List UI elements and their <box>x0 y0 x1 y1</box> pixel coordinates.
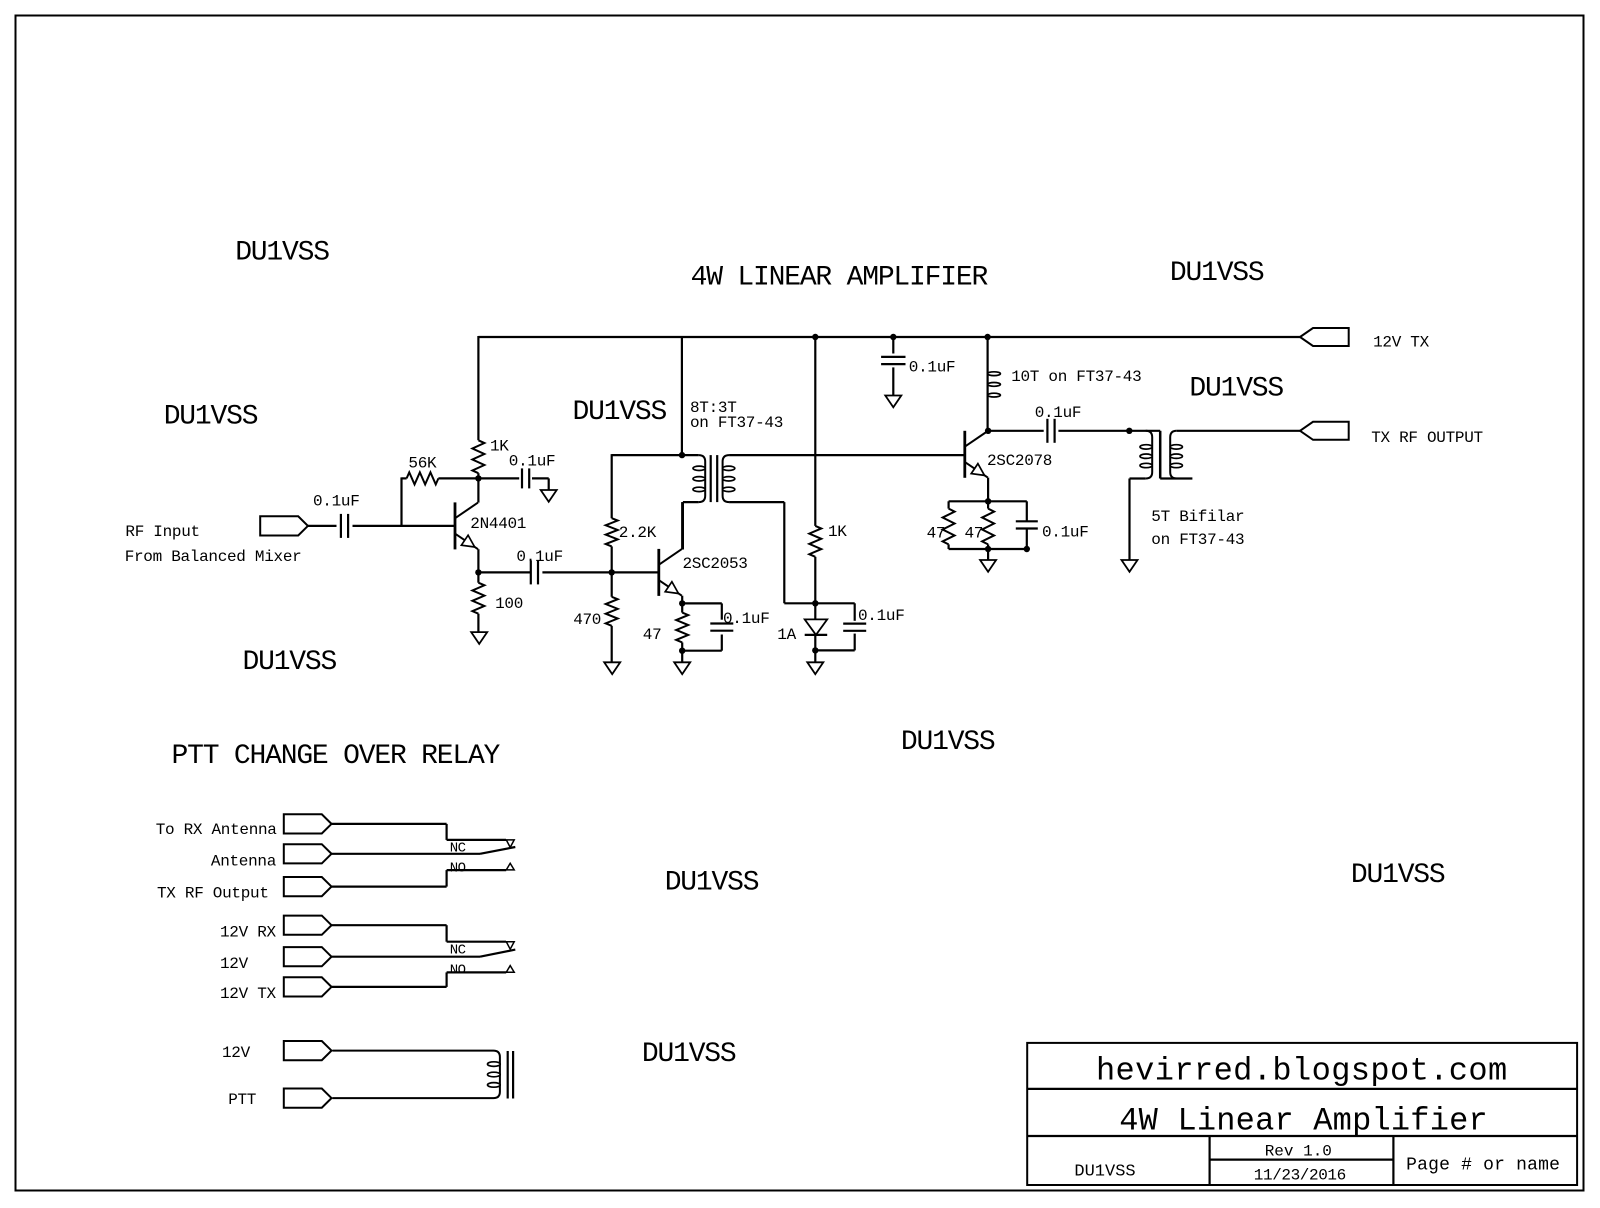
svg-text:Rev 1.0: Rev 1.0 <box>1265 1143 1332 1161</box>
wire node to Q2 base <box>612 571 659 573</box>
transformer T2 winding B 5T <box>1170 431 1182 479</box>
connector 12V TX <box>1300 328 1349 346</box>
watermark text DU1VSS #8 <box>665 868 759 899</box>
svg-text:10T on FT37-43: 10T on FT37-43 <box>1011 368 1141 386</box>
title block frame <box>1027 1043 1577 1185</box>
wire Q2 emitter down <box>681 596 683 604</box>
inductor L1 10T on FT37-43 <box>988 337 1001 431</box>
svg-text:4W LINEAR AMPLIFIER: 4W LINEAR AMPLIFIER <box>691 263 989 294</box>
wire C1 to Q1 base <box>353 525 456 527</box>
capacitor C6 0.1uF bias bypass <box>843 624 866 631</box>
relay contact NO1 <box>506 863 514 870</box>
svg-text:56K: 56K <box>408 455 437 473</box>
node C8 bottom junction <box>1024 546 1030 552</box>
label NC contact 1 <box>450 841 466 857</box>
connector RF Input <box>260 516 308 535</box>
label R6 47 <box>643 626 662 644</box>
wire rail drop to R2 1K <box>477 336 479 440</box>
capacitor C2 0.1uF collector bypass <box>522 468 529 488</box>
wire R1 left leg down to base <box>400 477 402 526</box>
svg-text:RF Input: RF Input <box>125 523 199 541</box>
watermark text DU1VSS #9 <box>1351 860 1445 891</box>
relay contact NC1 <box>506 840 514 848</box>
wire T1 secondary bottom to bias node <box>729 502 815 603</box>
label R9 47 <box>965 525 984 543</box>
connector 12V coil <box>284 1041 332 1060</box>
wire emitter to C3 <box>478 571 531 573</box>
resistor R7 1K bias <box>809 526 821 603</box>
wire NO2 line <box>447 971 507 973</box>
svg-text:2N4401: 2N4401 <box>470 515 526 533</box>
capacitor C8 0.1uF emitter bypass <box>1016 501 1038 549</box>
label RF Input <box>125 523 199 541</box>
svg-text:DU1VSS: DU1VSS <box>164 402 258 433</box>
wire junction to D1 <box>814 603 816 619</box>
node Q2 emitter junction <box>679 600 685 606</box>
transformer T1 primary winding 8T <box>683 455 705 549</box>
resistor R4 2.2K bias <box>606 454 618 572</box>
svg-text:47: 47 <box>643 626 662 644</box>
capacitor C1 0.1uF input coupling <box>341 514 348 538</box>
label PTT <box>228 1091 256 1109</box>
wire C5 bottom to junction <box>682 635 722 651</box>
label L1 10T on FT37-43 <box>1011 368 1141 386</box>
ground below C2 <box>541 490 557 502</box>
label Q3 2SC2078 <box>987 452 1052 470</box>
relay coil K1 <box>332 1051 500 1099</box>
svg-text:0.1uF: 0.1uF <box>1042 523 1089 541</box>
svg-text:TX RF OUTPUT: TX RF OUTPUT <box>1371 429 1483 447</box>
capacitor C3 0.1uF interstage coupling <box>531 560 538 584</box>
wire T1 secondary top to Q3 base <box>729 454 965 456</box>
label 12V RX <box>220 924 277 942</box>
wire network to ground <box>987 549 989 560</box>
title block Rev 1.0 <box>1265 1143 1332 1161</box>
wire emitter network bottom <box>949 548 1027 550</box>
label TX RF Output <box>157 885 269 903</box>
resistor R6 47 emitter <box>676 603 688 650</box>
wire To RX Antenna to NC1 <box>332 824 507 840</box>
wire C3 to node A <box>542 571 611 573</box>
resistor R3 100 emitter <box>472 572 484 632</box>
label R3 100 <box>495 595 523 613</box>
label 12V TX <box>1373 334 1430 352</box>
relay contact NC2 <box>506 942 514 950</box>
connector 12V RX <box>284 916 332 935</box>
label C2 0.1uF <box>509 453 556 471</box>
svg-text:2SC2053: 2SC2053 <box>683 555 748 573</box>
node Q2 base junction <box>609 569 615 575</box>
svg-text:1A: 1A <box>777 626 796 644</box>
label NO contact 2 <box>450 963 466 979</box>
svg-text:DU1VSS: DU1VSS <box>1189 374 1283 405</box>
watermark text DU1VSS #7 <box>901 727 995 758</box>
wire 12V common 2 <box>332 956 481 958</box>
label C8 0.1uF <box>1042 523 1089 541</box>
svg-text:NO: NO <box>450 861 466 877</box>
wire T2 to TX RF OUTPUT <box>1177 430 1300 432</box>
wire RF input to C1 <box>308 525 337 527</box>
label R5 470 <box>573 611 601 629</box>
svg-text:DU1VSS: DU1VSS <box>642 1039 736 1070</box>
svg-text:Page # or name: Page # or name <box>1406 1156 1560 1176</box>
ground below T2 <box>1122 560 1138 572</box>
svg-text:12V: 12V <box>222 1044 251 1062</box>
label TX RF OUTPUT <box>1371 429 1483 447</box>
svg-text:DU1VSS: DU1VSS <box>235 238 329 269</box>
relay arm pole 2 <box>480 950 515 957</box>
wire emitter network top <box>949 500 1027 502</box>
connector 12V common <box>284 947 332 966</box>
title block date 11/23/2016 <box>1254 1166 1346 1184</box>
wire Antenna common 1 <box>332 853 481 855</box>
svg-text:PTT: PTT <box>228 1091 256 1109</box>
wire C2 to ground stub <box>532 478 549 490</box>
title block page <box>1406 1156 1560 1176</box>
svg-text:DU1VSS: DU1VSS <box>1074 1163 1135 1182</box>
wire Q2 collector to T1 <box>681 502 683 549</box>
node emitter network bottom junction <box>985 546 991 552</box>
label T1 8T:3T <box>690 399 737 417</box>
node Q3 emitter junction <box>985 498 991 504</box>
label 12V common <box>220 955 249 973</box>
wire R6 to ground <box>681 651 683 663</box>
svg-text:DU1VSS: DU1VSS <box>665 868 759 899</box>
relay coil core <box>508 1051 513 1099</box>
watermark text DU1VSS #2 <box>164 402 258 433</box>
diode D1 1A <box>805 619 828 650</box>
resistor R5 470 bias <box>606 572 618 662</box>
svg-text:on FT37-43: on FT37-43 <box>690 414 783 432</box>
wire Q3 collector to C9 <box>988 430 1044 432</box>
ground below R5 <box>604 662 620 674</box>
connector TX RF Output <box>284 877 332 896</box>
wire TX RF Output to NO1 <box>332 870 447 887</box>
label T2 5T Bifilar <box>1151 508 1244 526</box>
ground below emitter network <box>980 560 996 572</box>
svg-text:2SC2078: 2SC2078 <box>987 452 1052 470</box>
label Antenna <box>211 853 277 871</box>
wire rail drop to R7 <box>814 337 816 526</box>
node rail junction L1 <box>984 334 990 340</box>
label C6 0.1uF <box>858 607 905 625</box>
wire emitter to C5 top <box>682 603 722 619</box>
svg-text:0.1uF: 0.1uF <box>1035 404 1082 422</box>
node D1 anode junction <box>812 600 818 606</box>
svg-text:DU1VSS: DU1VSS <box>243 647 337 678</box>
ground below C7 <box>885 396 901 408</box>
section title PTT CHANGE OVER RELAY <box>172 741 501 772</box>
label NC contact 2 <box>450 943 466 959</box>
label T1 on FT37-43 <box>690 414 783 432</box>
ground below D1 <box>807 662 823 674</box>
transformer T2 winding A 5T <box>1130 431 1153 560</box>
wire Q1 emitter down <box>477 549 479 572</box>
label D1 1A <box>777 626 796 644</box>
label C5 0.1uF <box>723 610 770 628</box>
watermark text DU1VSS #3 <box>573 397 667 428</box>
svg-text:0.1uF: 0.1uF <box>858 607 905 625</box>
svg-text:1K: 1K <box>828 523 847 541</box>
svg-text:47: 47 <box>927 525 946 543</box>
wire C7 to ground <box>892 367 894 395</box>
node Q3 collector junction <box>985 428 991 434</box>
svg-text:Antenna: Antenna <box>211 853 277 871</box>
svg-text:NO: NO <box>450 963 466 979</box>
wire C9 to T2 <box>1058 430 1160 432</box>
wire NO1 line <box>447 869 507 871</box>
label C3 0.1uF <box>516 548 563 566</box>
svg-text:12V TX: 12V TX <box>220 985 277 1003</box>
label From Balanced Mixer <box>125 548 302 566</box>
label R2 1K <box>490 438 509 456</box>
svg-text:1K: 1K <box>490 438 509 456</box>
resistor R1 56K feedback <box>402 472 479 484</box>
node rail junction C7 <box>890 334 896 340</box>
wire C6 bottom to cathode <box>815 634 854 651</box>
label NO contact 1 <box>450 861 466 877</box>
wire Q3 emitter down <box>987 478 989 502</box>
wire rail drop to T1 <box>681 336 683 455</box>
svg-text:DU1VSS: DU1VSS <box>1351 860 1445 891</box>
transformer T1 secondary winding 3T <box>723 455 735 502</box>
transistor Q3 2SC2078 <box>965 431 988 478</box>
watermark text DU1VSS #1 <box>235 238 329 269</box>
node D1 cathode junction <box>812 647 818 653</box>
svg-text:12V RX: 12V RX <box>220 924 277 942</box>
capacitor C9 0.1uF output coupling <box>1047 419 1054 443</box>
svg-text:47: 47 <box>965 525 984 543</box>
wire 12V supply rail <box>478 336 1300 338</box>
node R6 bottom junction <box>679 648 685 654</box>
label R4 2.2K <box>619 524 657 542</box>
resistor R8 47 left <box>943 501 955 549</box>
label T2 on FT37-43 <box>1151 531 1244 549</box>
node collector junction Q1 <box>475 475 481 481</box>
svg-text:hevirred.blogspot.com: hevirred.blogspot.com <box>1096 1053 1508 1090</box>
watermark text DU1VSS #5 <box>1189 374 1283 405</box>
svg-text:12V TX: 12V TX <box>1373 334 1430 352</box>
label Q1 2N4401 <box>470 515 526 533</box>
watermark text DU1VSS #6 <box>243 647 337 678</box>
resistor R9 47 right <box>982 501 994 549</box>
svg-text:2.2K: 2.2K <box>619 524 657 542</box>
svg-text:TX RF Output: TX RF Output <box>157 885 269 903</box>
svg-text:DU1VSS: DU1VSS <box>1170 258 1264 289</box>
wire Q1 collector up <box>477 479 479 503</box>
svg-text:0.1uF: 0.1uF <box>313 493 360 511</box>
connector 12V TX pole <box>284 977 332 996</box>
svg-text:0.1uF: 0.1uF <box>909 359 956 377</box>
label To RX Antenna <box>156 821 278 839</box>
node rail junction R7 <box>812 334 818 340</box>
schematic title 4W LINEAR AMPLIFIER <box>691 263 989 294</box>
ground below R6 <box>674 662 690 674</box>
wire rail to C7 <box>892 337 894 354</box>
svg-text:5T Bifilar: 5T Bifilar <box>1151 508 1244 526</box>
resistor R2 1K collector load <box>472 440 484 478</box>
svg-text:PTT CHANGE OVER RELAY: PTT CHANGE OVER RELAY <box>172 741 501 772</box>
wire junction to C2 <box>478 477 519 479</box>
wire D1 node to C6 top <box>815 603 854 621</box>
svg-text:on FT37-43: on FT37-43 <box>1151 531 1244 549</box>
relay arm pole 1 <box>480 847 515 854</box>
capacitor C5 0.1uF emitter bypass <box>710 624 733 631</box>
watermark text DU1VSS #4 <box>1170 258 1264 289</box>
transformer T2 core <box>1159 431 1162 479</box>
svg-text:0.1uF: 0.1uF <box>509 453 556 471</box>
wire D1 to ground <box>814 650 816 662</box>
wire Q3 collector up <box>987 430 989 433</box>
transformer T1 core <box>711 455 718 502</box>
svg-text:12V: 12V <box>220 955 249 973</box>
wire 12V RX to NC2 <box>332 925 507 942</box>
connector PTT <box>284 1089 332 1108</box>
node T2 input junction <box>1126 428 1132 434</box>
svg-text:0.1uF: 0.1uF <box>516 548 563 566</box>
transistor Q1 2N4401 <box>455 502 478 549</box>
node Q1 emitter junction <box>475 569 481 575</box>
svg-text:From Balanced Mixer: From Balanced Mixer <box>125 548 302 566</box>
wire 12V TX to NO2 <box>332 972 447 987</box>
label Q2 2SC2053 <box>683 555 748 573</box>
title block blog url <box>1096 1053 1508 1090</box>
svg-text:To RX Antenna: To RX Antenna <box>156 821 278 839</box>
wire T2 bottom stub <box>1160 477 1192 479</box>
label R1 56K <box>408 455 437 473</box>
label 12V coil <box>222 1044 251 1062</box>
connector TX RF OUTPUT <box>1300 422 1349 440</box>
node T1 primary top junction <box>679 452 685 458</box>
label C9 0.1uF <box>1035 404 1082 422</box>
connector Antenna <box>284 844 332 863</box>
label R7 1K <box>828 523 847 541</box>
watermark text DU1VSS #10 <box>642 1039 736 1070</box>
svg-text:DU1VSS: DU1VSS <box>901 727 995 758</box>
transistor Q2 2SC2053 <box>659 549 682 596</box>
svg-text:4W Linear Amplifier: 4W Linear Amplifier <box>1119 1103 1488 1140</box>
svg-text:100: 100 <box>495 595 523 613</box>
wire T1 primary tap feed <box>612 454 699 456</box>
ground below R3 <box>471 632 487 644</box>
label C7 0.1uF <box>909 359 956 377</box>
relay contact NO2 <box>506 966 514 973</box>
svg-text:0.1uF: 0.1uF <box>723 610 770 628</box>
svg-text:11/23/2016: 11/23/2016 <box>1254 1166 1346 1184</box>
label C1 0.1uF <box>313 493 360 511</box>
capacitor C7 0.1uF rail decoupling <box>881 357 905 364</box>
title block project name <box>1119 1103 1488 1140</box>
label 12V TX pole <box>220 985 277 1003</box>
title block author DU1VSS <box>1074 1163 1135 1182</box>
connector To RX Antenna <box>284 814 332 833</box>
svg-text:470: 470 <box>573 611 601 629</box>
label R8 47 <box>927 525 946 543</box>
svg-text:DU1VSS: DU1VSS <box>573 397 667 428</box>
